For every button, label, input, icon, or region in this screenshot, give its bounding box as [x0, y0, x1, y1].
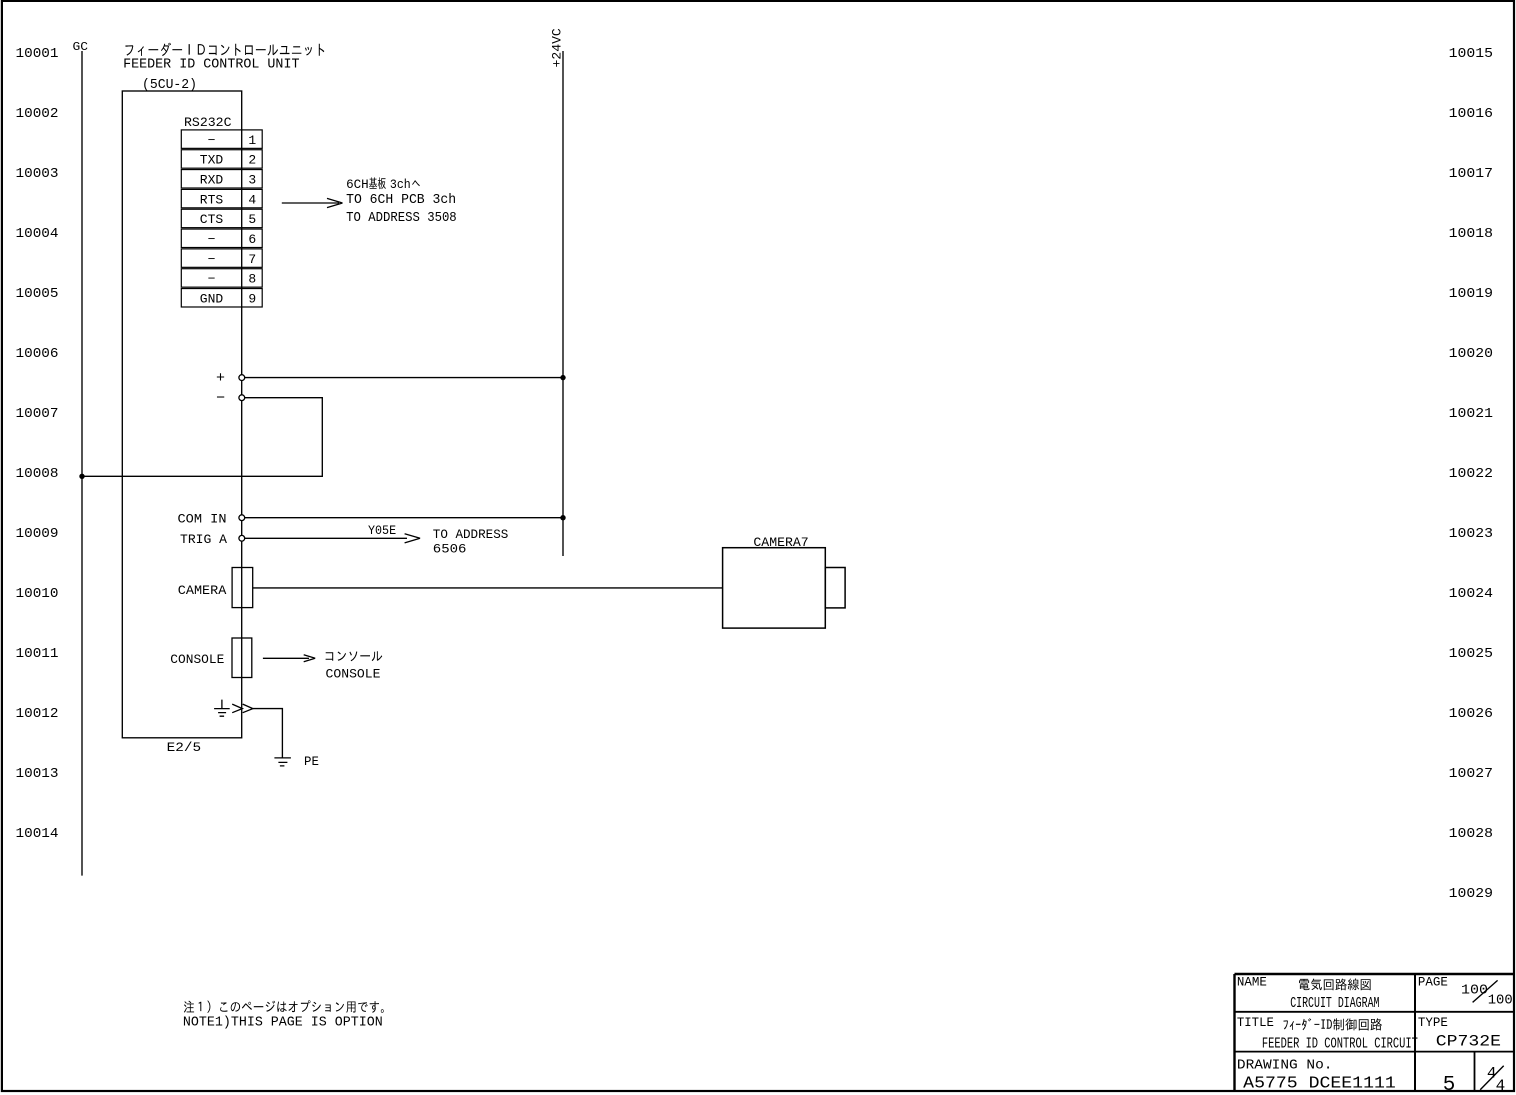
svg-text:4: 4 — [1496, 1077, 1506, 1095]
svg-text:10005: 10005 — [16, 286, 59, 302]
svg-text:6CH: 6CH — [346, 177, 369, 192]
svg-text:RS232C: RS232C — [184, 115, 232, 130]
terminal circle TRIG A — [239, 535, 245, 541]
junction +24VC/COM IN — [560, 515, 565, 520]
connector RS232C pin table pins 1-9 — [181, 130, 262, 307]
label FEEDER ID CONTROL UNIT — [123, 57, 299, 72]
title feeder id control circuit (japanese) — [1284, 1018, 1383, 1030]
wire TRIG A with arrow Y05E — [245, 534, 421, 543]
svg-text:3ch: 3ch — [390, 177, 411, 192]
junction +24VC/plus — [560, 375, 565, 380]
ground chassis — [214, 700, 230, 717]
label COM IN — [178, 512, 227, 527]
svg-text:CONSOLE: CONSOLE — [170, 652, 224, 667]
svg-text:10021: 10021 — [1449, 406, 1493, 422]
svg-text:8: 8 — [248, 272, 256, 287]
line number 10007 — [16, 406, 59, 422]
svg-text:10025: 10025 — [1449, 646, 1493, 662]
line number 10022 — [1449, 466, 1493, 482]
line number 10005 — [16, 286, 59, 302]
svg-text:4: 4 — [248, 192, 256, 207]
svg-text:NAME: NAME — [1237, 976, 1267, 990]
label TRIG A — [180, 532, 227, 547]
svg-text:RTS: RTS — [200, 192, 224, 207]
line number 10004 — [16, 226, 59, 242]
camera body CAMERA7 — [723, 548, 826, 628]
svg-text:GND: GND — [200, 292, 224, 307]
label CONSOLE external — [326, 666, 381, 681]
arrow console — [263, 655, 315, 662]
line number 10015 — [1449, 46, 1493, 62]
svg-text:−: − — [208, 232, 216, 247]
svg-text:10007: 10007 — [16, 406, 59, 422]
svg-text:10009: 10009 — [16, 526, 59, 542]
label CONSOLE — [170, 652, 224, 667]
svg-text:CTS: CTS — [200, 212, 224, 227]
svg-text:TRIG A: TRIG A — [180, 532, 227, 547]
terminal circle plus — [239, 375, 245, 381]
line number 10012 — [16, 706, 59, 722]
label rev /4 — [1496, 1077, 1506, 1095]
label CAMERA7 — [753, 535, 808, 550]
line number 10013 — [16, 766, 59, 782]
wire RS232C to 6CH PCB arrow — [282, 198, 343, 207]
svg-text:CAMERA: CAMERA — [178, 583, 227, 598]
wire plus to +24VC — [245, 377, 563, 379]
line number 10021 — [1449, 406, 1493, 422]
svg-text:10004: 10004 — [16, 226, 59, 242]
svg-text:10012: 10012 — [16, 706, 59, 722]
label - — [216, 390, 225, 407]
label Y05E — [368, 523, 396, 538]
svg-text:TITLE: TITLE — [1237, 1016, 1274, 1030]
svg-text:10023: 10023 — [1449, 526, 1493, 542]
svg-text:100: 100 — [1461, 982, 1488, 998]
line number 10020 — [1449, 346, 1493, 362]
svg-text:10022: 10022 — [1449, 466, 1493, 482]
svg-text:TYPE: TYPE — [1418, 1016, 1448, 1030]
svg-text:10013: 10013 — [16, 766, 59, 782]
connector CONSOLE — [232, 638, 252, 678]
label TYPE — [1418, 1016, 1448, 1030]
label rev 4 — [1487, 1064, 1497, 1082]
svg-text:100: 100 — [1488, 993, 1513, 1009]
terminal circle minus — [239, 395, 245, 401]
svg-text:Y05E: Y05E — [368, 523, 396, 538]
svg-text:TXD: TXD — [200, 153, 224, 168]
label + — [216, 370, 225, 387]
label (5CU-2) — [142, 78, 197, 93]
line number 10029 — [1449, 886, 1493, 902]
label TO 6CH PCB 3ch — [346, 193, 456, 208]
svg-text:6: 6 — [248, 232, 256, 247]
label NAME — [1237, 976, 1267, 990]
wire to PE ground — [253, 709, 283, 758]
svg-text:6506: 6506 — [433, 542, 467, 557]
svg-text:CIRCUIT DIAGRAM: CIRCUIT DIAGRAM — [1290, 996, 1379, 1012]
svg-text:A5775 DCEE1111: A5775 DCEE1111 — [1243, 1075, 1396, 1094]
label page /100 — [1488, 993, 1513, 1009]
svg-text:GC: GC — [73, 40, 89, 54]
title circuit diagram (japanese) — [1299, 978, 1371, 990]
junction GC/minus — [79, 474, 84, 479]
label PAGE — [1418, 976, 1448, 990]
svg-text:COM IN: COM IN — [178, 512, 227, 527]
label E2/5 — [167, 740, 202, 755]
label CIRCUIT DIAGRAM — [1290, 996, 1379, 1012]
svg-text:10003: 10003 — [16, 166, 59, 182]
line number 10028 — [1449, 826, 1493, 842]
svg-text:5: 5 — [248, 212, 256, 227]
label 6CH PCB 3ch (japanese+latin) — [346, 177, 420, 192]
svg-text:PE: PE — [304, 754, 319, 769]
svg-text:−: − — [208, 272, 216, 287]
rev slash — [1480, 1066, 1504, 1090]
svg-text:RXD: RXD — [200, 173, 224, 188]
feeder ID control unit box 5CU-2 — [122, 91, 241, 738]
ground PE earth — [274, 758, 291, 766]
line number 10008 — [16, 466, 59, 482]
camera connector block — [825, 568, 845, 608]
line number 10025 — [1449, 646, 1493, 662]
line number 10002 — [16, 106, 59, 122]
svg-text:NOTE1)THIS PAGE IS OPTION: NOTE1)THIS PAGE IS OPTION — [183, 1015, 383, 1031]
label sheet 5 — [1443, 1074, 1456, 1095]
line number 10003 — [16, 166, 59, 182]
line number 10017 — [1449, 166, 1493, 182]
connector CAMERA — [232, 568, 253, 608]
line number 10018 — [1449, 226, 1493, 242]
svg-text:FEEDER ID CONTROL UNIT: FEEDER ID CONTROL UNIT — [123, 57, 299, 72]
svg-text:10008: 10008 — [16, 466, 59, 482]
wire GC bus — [81, 51, 83, 876]
svg-text:10011: 10011 — [16, 646, 59, 662]
label CP732E — [1436, 1033, 1501, 1051]
note japanese — [184, 1000, 384, 1013]
svg-text:10006: 10006 — [16, 346, 59, 362]
svg-text:10024: 10024 — [1449, 586, 1493, 602]
wire minus loop to GC — [82, 398, 322, 477]
title block frame — [1235, 974, 1515, 1091]
line number 10014 — [16, 826, 59, 842]
svg-text:−: − — [208, 252, 216, 267]
line number 10001 — [16, 46, 59, 62]
line number 10019 — [1449, 286, 1493, 302]
terminal circle COM IN — [239, 515, 245, 521]
label TO ADDRESS 3508 — [346, 211, 457, 226]
svg-text:10002: 10002 — [16, 106, 59, 122]
svg-text:E2/5: E2/5 — [167, 740, 202, 755]
svg-text:TO ADDRESS 3508: TO ADDRESS 3508 — [346, 211, 457, 226]
svg-text:2: 2 — [248, 153, 256, 168]
label feeder id control unit (japanese) — [125, 43, 324, 57]
line number 10009 — [16, 526, 59, 542]
note NOTE1)THIS PAGE IS OPTION — [183, 1015, 383, 1031]
net label +24VC — [550, 28, 565, 67]
svg-text:−: − — [208, 133, 216, 148]
svg-text:10015: 10015 — [1449, 46, 1493, 62]
svg-text:10014: 10014 — [16, 826, 59, 842]
wire camera cable — [253, 587, 723, 589]
svg-text:CONSOLE: CONSOLE — [326, 666, 381, 681]
line number 10024 — [1449, 586, 1493, 602]
label TO ADDRESS — [433, 527, 509, 542]
label CAMERA — [178, 583, 227, 598]
svg-text:FEEDER ID CONTROL CIRCUIT: FEEDER ID CONTROL CIRCUIT — [1262, 1036, 1418, 1052]
svg-text:TO 6CH PCB 3ch: TO 6CH PCB 3ch — [346, 193, 456, 208]
svg-text:+: + — [216, 370, 225, 387]
line number 10011 — [16, 646, 59, 662]
svg-text:−: − — [216, 390, 225, 407]
line number 10026 — [1449, 706, 1493, 722]
svg-text:5: 5 — [1443, 1074, 1456, 1095]
svg-text:TO ADDRESS: TO ADDRESS — [433, 527, 509, 542]
net label GC — [73, 40, 89, 54]
svg-text:10010: 10010 — [16, 586, 59, 602]
line number 10010 — [16, 586, 59, 602]
label console (japanese) — [326, 651, 383, 661]
label RS232C — [184, 115, 232, 130]
label 6506 — [433, 542, 467, 557]
svg-text:10018: 10018 — [1449, 226, 1493, 242]
svg-text:10028: 10028 — [1449, 826, 1493, 842]
svg-text:10016: 10016 — [1449, 106, 1493, 122]
label page 100 — [1461, 982, 1488, 998]
connector chevrons PE — [232, 704, 253, 713]
svg-text:9: 9 — [248, 292, 256, 307]
page slash — [1473, 980, 1498, 1002]
svg-text:10027: 10027 — [1449, 766, 1493, 782]
label FEEDER ID CONTROL CIRCUIT — [1262, 1036, 1418, 1052]
svg-text:10026: 10026 — [1449, 706, 1493, 722]
wire +24VC rail — [562, 51, 564, 556]
svg-text:CP732E: CP732E — [1436, 1033, 1501, 1051]
line number 10016 — [1449, 106, 1493, 122]
svg-text:10019: 10019 — [1449, 286, 1493, 302]
line number 10023 — [1449, 526, 1493, 542]
line number 10027 — [1449, 766, 1493, 782]
svg-text:10017: 10017 — [1449, 166, 1493, 182]
svg-text:1: 1 — [248, 133, 256, 148]
svg-text:PAGE: PAGE — [1418, 976, 1448, 990]
svg-text:+24VC: +24VC — [550, 28, 565, 67]
label DRAWING No. — [1237, 1058, 1333, 1074]
svg-text:DRAWING No.: DRAWING No. — [1237, 1058, 1333, 1074]
svg-text:10029: 10029 — [1449, 886, 1493, 902]
svg-text:7: 7 — [248, 252, 256, 267]
label TITLE — [1237, 1016, 1274, 1030]
line number 10006 — [16, 346, 59, 362]
wire COM IN to +24VC — [245, 517, 563, 519]
label A5775 DCEE1111 — [1243, 1075, 1396, 1094]
svg-text:10001: 10001 — [16, 46, 59, 62]
label PE — [304, 754, 319, 769]
svg-text:3: 3 — [248, 173, 256, 188]
svg-text:10020: 10020 — [1449, 346, 1493, 362]
